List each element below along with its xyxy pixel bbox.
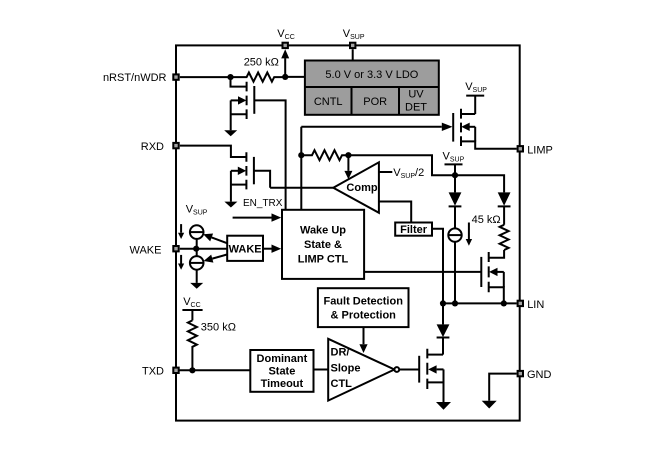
svg-text:Comp: Comp: [346, 182, 377, 194]
svg-text:nRST/nWDR: nRST/nWDR: [103, 72, 167, 84]
svg-text:RXD: RXD: [141, 141, 164, 153]
resistor R1 250 kOhm: [231, 73, 286, 82]
svg-text:Wake Up: Wake Up: [300, 225, 346, 237]
pin RXD: [173, 143, 178, 148]
wire Q2 gate to comparator output: [254, 171, 270, 188]
wire Dominant box to slope control: [314, 369, 329, 371]
wire RXD pin to Q2 drain: [180, 146, 247, 157]
ground below Q5: [436, 402, 451, 410]
svg-text:State: State: [268, 366, 295, 378]
svg-text:CTL: CTL: [331, 378, 353, 390]
wire nRST pin to junction: [180, 76, 231, 78]
current direction arrow upper: [178, 224, 184, 239]
svg-text:GND: GND: [527, 369, 552, 381]
current source I3: [190, 249, 204, 283]
wire arrow EN_TRX into Wake Up block: [233, 217, 272, 219]
slope control buffer U3 DR/Slope CTL: [328, 339, 394, 401]
regulator block U1 5.0V/3.3V LDO: [305, 61, 439, 115]
current source I1: [448, 228, 461, 303]
current direction arrow lower: [178, 255, 184, 270]
wire arrow WAKE box to I2: [212, 237, 228, 243]
wire comparator lower input to Filter: [379, 202, 411, 223]
node junction TXD: [189, 367, 195, 373]
diode D3 below LIN: [437, 303, 450, 354]
svg-text:350 kΩ: 350 kΩ: [201, 322, 236, 334]
ground below Q1: [224, 130, 237, 136]
svg-text:250 kΩ: 250 kΩ: [244, 57, 279, 69]
wire GND pin: [489, 374, 516, 401]
wire arrow WAKE box to Wake Up block: [263, 248, 272, 250]
node junction below VCC pin: [282, 74, 288, 80]
pin GND: [518, 371, 523, 376]
svg-text:Slope: Slope: [331, 362, 361, 374]
svg-text:& Protection: & Protection: [330, 310, 396, 322]
ground below I3: [190, 283, 203, 289]
resistor R4 350 kOhm: [188, 320, 197, 370]
dominant state timeout block: [250, 350, 313, 392]
svg-text:Filter: Filter: [400, 224, 428, 236]
wire comparator output to Q2 gate: [270, 187, 333, 189]
svg-text:TXD: TXD: [142, 366, 164, 378]
svg-text:EN_TRX: EN_TRX: [243, 198, 283, 209]
resistor R2 (comparator input): [301, 150, 348, 160]
svg-text:DET: DET: [405, 101, 427, 113]
wire Filter to LIN node: [432, 229, 443, 304]
vertical wire junction column to Wake Up block: [300, 127, 302, 210]
wire arrow WAKE box to I3: [212, 254, 227, 258]
svg-text:LIMP CTL: LIMP CTL: [298, 254, 349, 266]
pin LIN: [518, 301, 523, 306]
svg-text:CNTL: CNTL: [314, 96, 343, 108]
inverter bubble: [394, 367, 399, 372]
svg-text:Dominant: Dominant: [257, 353, 308, 365]
transistor Q2 (RXD driver): [231, 152, 254, 201]
node junction on nRST line: [227, 74, 233, 80]
wire bubble to Q5 gate: [399, 369, 419, 371]
pin nRST/nWDR: [173, 74, 178, 79]
svg-text:WAKE: WAKE: [130, 244, 162, 256]
pin VCC: [283, 43, 288, 48]
fault detection block: [318, 288, 409, 327]
current direction arrow for 45k branch: [466, 223, 472, 246]
resistor R3 45 kOhm: [500, 225, 509, 250]
svg-text:DR/: DR/: [331, 347, 350, 359]
ground below Q2: [224, 202, 237, 208]
wire R3 to Q4 drain: [489, 250, 504, 258]
ground at GND pin: [482, 401, 497, 409]
wire WAKE pin to WAKE box: [180, 248, 227, 250]
wire VSUP node to 45k branch: [455, 175, 504, 192]
wire arrow fault block to slope control: [363, 327, 365, 344]
supply terminal VSUP (mid): [443, 151, 465, 176]
transistor Q4 (LIN pull): [481, 252, 504, 303]
node junction WAKE: [193, 246, 199, 252]
svg-text:State &: State &: [304, 239, 342, 251]
svg-text:5.0 V or 3.3 V LDO: 5.0 V or 3.3 V LDO: [325, 69, 418, 81]
diode D1: [449, 175, 462, 228]
wire VSUP/2 reference input: [379, 171, 392, 173]
wire VSUP pin stem into LDO: [352, 49, 354, 60]
transistor Q5 (LIN output driver): [419, 349, 443, 402]
comparator U2: [333, 162, 379, 213]
diode D2: [498, 192, 511, 224]
node junction LIN-current source: [452, 300, 458, 306]
wire LIN node: [443, 302, 517, 304]
transistor Q1 (nRST driver): [231, 77, 255, 130]
wake up state block: [282, 210, 364, 279]
wire Wake Up block to Q4 gate: [364, 271, 481, 273]
wire Q1 gate to Wake Up block: [254, 100, 285, 209]
pin LIMP: [518, 146, 523, 151]
pin WAKE: [173, 246, 178, 251]
svg-text:POR: POR: [363, 96, 387, 108]
wire R2 junction to VSUP node: [348, 155, 455, 175]
node junction left of comparator resistor: [298, 152, 304, 158]
current source I2: [190, 225, 204, 248]
node junction LIN-filter: [440, 300, 446, 306]
svg-text:UV: UV: [408, 89, 424, 101]
wake comparator box: [227, 236, 263, 261]
supply terminal VSUP (LIMP transistor): [465, 81, 487, 114]
node junction LIN-Q4 source: [501, 300, 507, 306]
filter block: [395, 223, 432, 237]
svg-text:WAKE: WAKE: [229, 243, 262, 255]
wire junction to LDO: [285, 76, 305, 78]
svg-text:Timeout: Timeout: [261, 378, 304, 390]
wire to LIMP transistor gate with arrow: [301, 126, 442, 128]
wire arrow into comparator top: [347, 155, 349, 171]
svg-text:LIN: LIN: [527, 299, 544, 311]
pin VSUP: [350, 43, 355, 48]
svg-text:LIMP: LIMP: [527, 144, 553, 156]
wire arrow up to VCC pin: [284, 58, 286, 77]
transistor Q3 (LIMP driver): [453, 109, 516, 149]
svg-text:Fault Detection: Fault Detection: [323, 295, 403, 307]
outer IC boundary: [176, 45, 520, 420]
pin TXD: [173, 368, 178, 373]
svg-text:45 kΩ: 45 kΩ: [472, 214, 501, 226]
supply terminal VCC (TXD pull-up): [182, 296, 202, 320]
node junction right of resistor R2: [345, 152, 351, 158]
wire TXD pin to Dominant box: [180, 369, 251, 371]
node junction VSUP mid: [452, 172, 458, 178]
